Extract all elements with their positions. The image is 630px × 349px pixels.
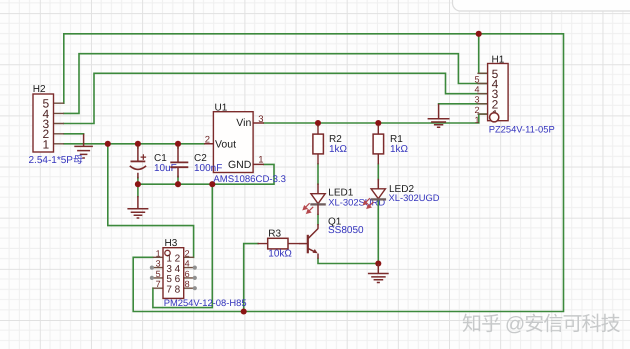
emission arrows <box>364 198 374 208</box>
svg-text:5: 5 <box>474 74 479 84</box>
resistor R1 <box>373 126 384 165</box>
ground G3 (H1 pin2) <box>428 104 450 127</box>
node R2 top <box>315 120 321 126</box>
ground G1 (H2 pin2) <box>74 134 93 158</box>
wire R2 to LED1 <box>317 164 319 184</box>
svg-text:AMS1086CD-3.3: AMS1086CD-3.3 <box>213 174 286 185</box>
wire R2 top lead <box>317 123 319 126</box>
node gnd-rail H3.7 branch <box>209 181 215 187</box>
node top wire to H1.5 <box>476 31 482 37</box>
node rail-H3.2 <box>105 141 111 147</box>
capacitor C1 <box>130 147 146 179</box>
svg-text:PM254V-12-08-H85: PM254V-12-08-H85 <box>164 297 247 308</box>
wire LED2 to emitter junction <box>377 200 379 264</box>
node C1 bottom <box>135 181 141 187</box>
connector H2 <box>33 94 54 152</box>
svg-text:5: 5 <box>156 269 161 279</box>
wire rail to H3 pin2 <box>108 144 194 257</box>
svg-text:R3: R3 <box>268 228 281 239</box>
svg-text:知乎 @安信可科技: 知乎 @安信可科技 <box>462 314 621 336</box>
LED LED1 <box>303 184 326 216</box>
wire Q1 emitter to junction <box>318 259 378 264</box>
svg-text:1: 1 <box>474 115 479 125</box>
wire C2 vertical <box>177 144 179 184</box>
wire R1 top lead <box>377 123 379 126</box>
svg-text:2.54-1*5P母: 2.54-1*5P母 <box>29 155 83 166</box>
resistor R3 <box>258 238 300 249</box>
svg-text:3: 3 <box>258 114 263 125</box>
svg-text:GND: GND <box>228 159 252 171</box>
transistor Q1 <box>299 224 318 259</box>
svg-text:1: 1 <box>258 155 263 166</box>
ground G4 (emitter) <box>368 264 389 283</box>
svg-text:10kΩ: 10kΩ <box>268 249 292 260</box>
svg-text:1: 1 <box>156 248 161 258</box>
svg-text:4: 4 <box>185 259 190 269</box>
svg-text:3: 3 <box>156 259 161 269</box>
wire R3 left to bottom rail <box>244 244 258 312</box>
svg-text:1kΩ: 1kΩ <box>329 144 348 155</box>
node C2 top <box>175 141 181 147</box>
wire H2.1 to U1 Vout rail <box>64 143 204 145</box>
svg-text:PZ254V-11-05P: PZ254V-11-05P <box>489 124 555 135</box>
emission arrows <box>303 203 313 213</box>
svg-text:1kΩ: 1kΩ <box>390 144 409 155</box>
H3 pin stubs <box>153 257 163 288</box>
svg-text:1: 1 <box>42 137 49 151</box>
connector H1 <box>474 64 508 126</box>
wire C1 vertical <box>137 144 139 184</box>
svg-text:3: 3 <box>474 95 479 105</box>
wire gnd rail <box>138 164 274 184</box>
wire R1 to LED2 <box>377 164 379 180</box>
top-right UI panel <box>453 0 630 11</box>
wire net H2.5/H3.1/right-loop <box>64 34 564 312</box>
svg-text:Vout: Vout <box>215 139 236 151</box>
svg-text:H1: H1 <box>492 54 505 65</box>
ground G2 (C1 rail) <box>127 196 148 218</box>
svg-text:8: 8 <box>175 284 181 295</box>
svg-text:100nF: 100nF <box>194 163 222 174</box>
svg-text:U1: U1 <box>215 102 228 113</box>
svg-text:H2: H2 <box>33 84 46 95</box>
svg-text:4: 4 <box>474 85 479 95</box>
wire H2.2 to ground <box>64 133 84 135</box>
svg-text:7: 7 <box>156 279 161 289</box>
resistor R2 <box>313 126 324 165</box>
node C2 bottom <box>175 181 181 187</box>
svg-text:SS8050: SS8050 <box>328 225 364 236</box>
node R1 top <box>375 120 381 126</box>
wire gnd rail to ground symbol <box>137 184 139 196</box>
capacitor C2 <box>170 147 188 178</box>
svg-text:7: 7 <box>166 284 172 295</box>
node bottom rail R3 <box>241 308 247 314</box>
wire H2.4 to H1.4 <box>64 54 488 114</box>
svg-text:6: 6 <box>185 269 190 279</box>
H1 pin stubs <box>477 73 487 114</box>
svg-text:2: 2 <box>185 248 190 258</box>
svg-text:XL-302UGD: XL-302UGD <box>389 192 440 203</box>
LED LED2 <box>364 179 387 208</box>
svg-text:2: 2 <box>205 134 210 145</box>
svg-text:10uF: 10uF <box>154 163 177 174</box>
wire H2.3 to H1.3 <box>64 73 488 123</box>
wire top to H1.5 <box>479 34 488 74</box>
node emitter/LED2/ground <box>375 260 381 266</box>
wire LED1 to Q1 collector <box>317 215 319 225</box>
svg-text:Vin: Vin <box>236 117 251 129</box>
svg-text:8: 8 <box>185 279 190 289</box>
svg-text:H3: H3 <box>165 238 178 249</box>
wire Vin rail U1.3 to H1.1 <box>264 114 488 123</box>
H2 pin stubs <box>54 103 65 144</box>
no-connect pin dots <box>150 266 197 291</box>
svg-text:2: 2 <box>474 105 479 115</box>
connector H3 <box>150 248 197 299</box>
op-amp U1 box <box>204 112 264 173</box>
node C1 top <box>135 141 141 147</box>
wire H1.2 to ground <box>439 103 488 105</box>
wire gnd rail to H3 pin7 <box>153 184 212 307</box>
